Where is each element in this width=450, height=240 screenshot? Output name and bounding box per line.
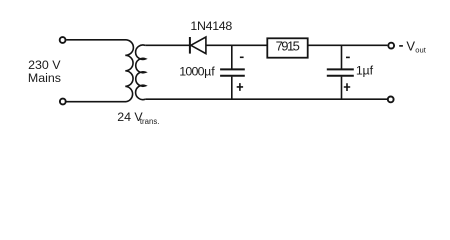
- svg-text:1N4148: 1N4148: [190, 19, 232, 33]
- svg-text:7915: 7915: [276, 39, 300, 54]
- C1 minus sign: [240, 56, 244, 58]
- svg-text:230 V: 230 V: [28, 58, 61, 72]
- svg-text:out: out: [415, 45, 426, 54]
- svg-text:Mains: Mains: [28, 71, 61, 85]
- svg-text:V: V: [406, 38, 415, 53]
- svg-text:trans.: trans.: [140, 117, 160, 126]
- wire primary top: [66, 39, 126, 41]
- capacitor C1 bottom plate: [220, 75, 245, 77]
- transformer T1 primary winding: [125, 40, 133, 102]
- diode D1 cathode bar: [189, 37, 191, 54]
- capacitor C2 bottom plate: [327, 75, 354, 77]
- wire primary bottom: [66, 101, 126, 103]
- svg-text:µf: µf: [363, 63, 374, 77]
- svg-text:µf: µf: [204, 64, 215, 78]
- terminal top-left: [60, 37, 66, 43]
- terminal bottom-left: [60, 99, 66, 105]
- terminal output top: [388, 43, 394, 49]
- wire top rail: diode to regulator: [206, 44, 267, 46]
- C2 minus sign: [346, 56, 350, 58]
- C1 plus sign: [237, 83, 243, 91]
- regulator U1 box: [267, 38, 307, 57]
- diode D1 triangle: [191, 37, 206, 54]
- wire capacitor C2 upper lead: [341, 45, 343, 68]
- wire top rail: regulator to output terminal: [308, 44, 388, 46]
- capacitor C1 top plate: [220, 68, 245, 70]
- capacitor C2 top plate: [327, 68, 354, 70]
- transformer T1 secondary winding: [136, 45, 146, 100]
- C2 plus sign: [344, 83, 350, 91]
- output minus sign: [399, 45, 403, 47]
- svg-text:1000: 1000: [179, 64, 204, 78]
- wire capacitor C1 upper lead: [231, 45, 233, 68]
- wire capacitor C1 lower lead: [231, 77, 233, 100]
- wire bottom rail: [145, 98, 387, 100]
- wire top rail: secondary to diode: [145, 44, 190, 46]
- terminal output bottom: [388, 97, 394, 103]
- wire capacitor C2 lower lead: [341, 77, 343, 100]
